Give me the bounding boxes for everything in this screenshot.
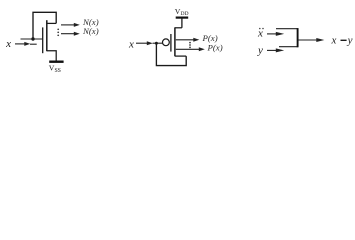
svg-text:P(x): P(x) <box>207 43 223 53</box>
svg-text:x: x <box>257 28 263 40</box>
transistor Q2 inversion bubble <box>163 39 170 46</box>
transistor Q2 source bend <box>175 27 182 29</box>
wire: output arrow 1 P(x) <box>176 38 200 42</box>
node x (right figure input label with scan dots) <box>257 28 264 40</box>
wire: x branch top line <box>276 28 298 30</box>
transistor Q1 channel bar <box>46 20 48 51</box>
wire: output arrow 1 N(x) <box>61 23 80 27</box>
wire: y branch bottom line <box>279 46 298 48</box>
transistor Q1 drain bend <box>47 22 56 24</box>
label N(x) lower <box>82 26 99 36</box>
wire: x input annotation arrow (right figure) <box>267 32 284 36</box>
transistor Q2 channel bar <box>174 27 176 56</box>
svg-text:x: x <box>128 39 134 51</box>
wire: gate wire of Q1 <box>21 38 43 40</box>
power label VSS <box>49 64 61 75</box>
wire: y input annotation arrow (right figure) <box>267 48 284 52</box>
label P(x) upper <box>202 33 218 43</box>
power rail VSS bar <box>49 61 63 63</box>
node y (right figure input label) <box>257 45 263 57</box>
label P(x) lower <box>207 43 223 53</box>
wire: VDD stub to Q2 source <box>181 18 183 28</box>
node x (middle figure input label) <box>128 39 134 51</box>
svg-text:x: x <box>5 38 11 50</box>
transistor Q1 gate bar <box>42 27 44 53</box>
svg-text:y: y <box>257 45 263 57</box>
power rail VDD bar <box>176 17 189 19</box>
label N(x) upper <box>82 17 99 27</box>
junction ellipsis dots (more outputs implied) <box>189 42 191 49</box>
label x-y output <box>331 34 353 46</box>
transistor Q1 source bend to VSS <box>47 51 56 61</box>
junction ellipsis dots (more outputs implied) <box>57 28 59 36</box>
junction bar joining x and y branches <box>297 28 299 47</box>
transistor Q2 drain bend <box>175 55 186 57</box>
power label VDD <box>175 7 189 17</box>
transistor Q2 gate bar <box>170 34 172 52</box>
wire: feedback box loop (gate to drain) of Q2 <box>156 43 186 65</box>
wire: output arrow 2 N(x) <box>61 32 80 36</box>
wire: feedback box loop (gate to drain) of Q1 <box>33 12 56 39</box>
node x (left figure input label) <box>5 38 11 50</box>
wire: x input annotation arrow <box>15 42 37 46</box>
wire: output arrow x-y <box>298 38 324 42</box>
wire: output arrow 2 P(x) <box>176 47 205 51</box>
svg-text:N(x): N(x) <box>82 26 99 36</box>
node A junction dot on gate wire <box>31 37 34 40</box>
svg-text:y: y <box>347 34 353 46</box>
node B junction dot on Q2 gate wire <box>155 42 158 45</box>
wire: x input arrow to Q2 gate <box>136 41 163 45</box>
svg-text:x: x <box>331 34 337 46</box>
